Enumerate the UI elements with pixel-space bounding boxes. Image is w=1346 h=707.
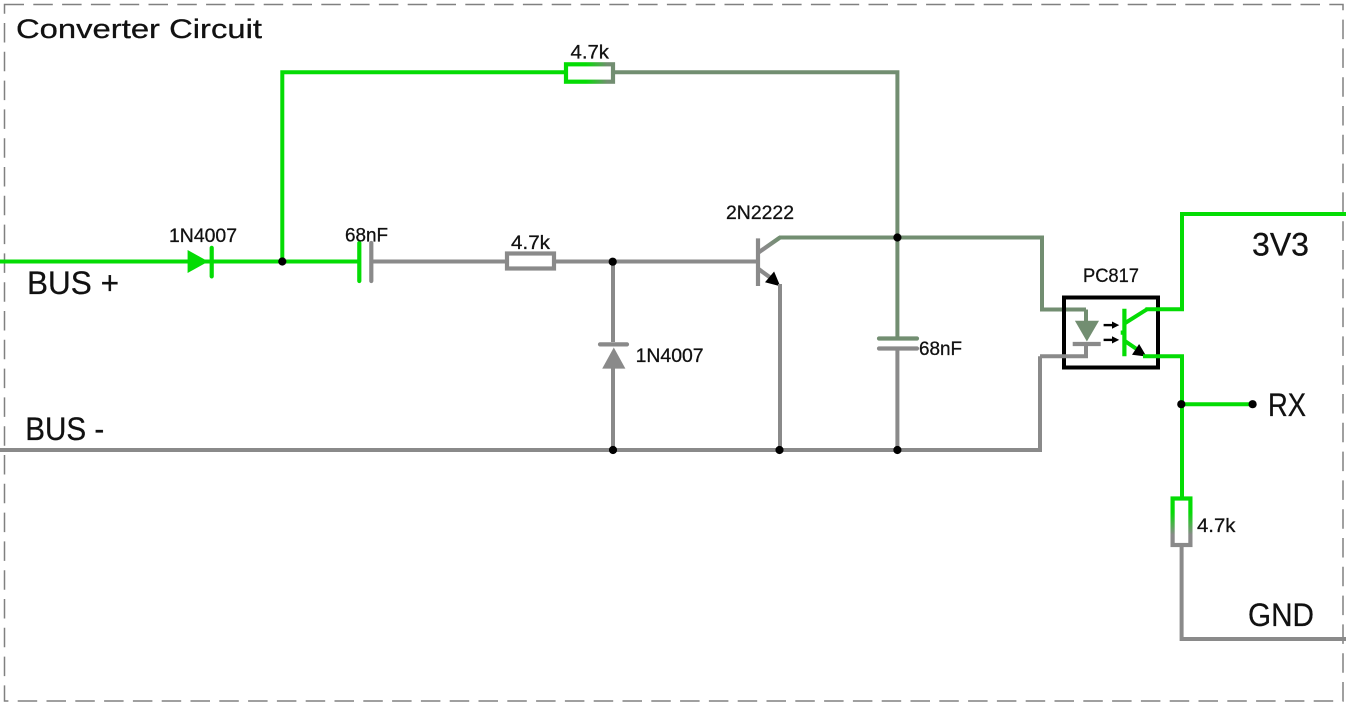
wire BUS- gray — [0, 448, 1042, 452]
svg-text:Converter Circuit: Converter Circuit — [16, 14, 263, 44]
svg-text:BUS +: BUS + — [27, 265, 119, 301]
svg-text:4.7k: 4.7k — [511, 233, 551, 254]
svg-text:3V3: 3V3 — [1252, 227, 1309, 263]
resistor R3 4.7k (vertical, gradient green->gray) — [1173, 499, 1191, 546]
wire sage collector rail — [779, 236, 1086, 337]
wire gray from C1 to R2 — [373, 260, 505, 264]
wire BUS+ horizontal green — [0, 260, 358, 264]
svg-text:1N4007: 1N4007 — [169, 226, 237, 247]
wire RX stub — [1181, 402, 1252, 406]
wire green collector to 3V3 — [1145, 214, 1346, 311]
wire green emitter to RX and R3 — [1143, 354, 1184, 496]
svg-text:2N2222: 2N2222 — [726, 203, 794, 224]
wire sage from R1 to riser — [613, 70, 897, 237]
node BUS-/C2 — [893, 446, 901, 454]
svg-text:4.7k: 4.7k — [571, 42, 610, 63]
wire gray base line — [556, 260, 756, 264]
svg-text:68nF: 68nF — [919, 339, 962, 360]
node BUS+/riser — [278, 257, 286, 265]
svg-text:GND: GND — [1248, 597, 1314, 633]
coupling arrows — [1104, 322, 1120, 344]
capacitor C1 68nF (left plate green, right plate gray) — [359, 243, 371, 281]
capacitor C2 68nF (top plate sage, bottom gray) — [879, 339, 917, 451]
node RX junction — [1177, 400, 1185, 408]
wire gray emitter down — [778, 284, 782, 450]
resistor R2 4.7k (gray) — [507, 254, 554, 269]
svg-text:RX: RX — [1268, 387, 1306, 423]
svg-text:PC817: PC817 — [1083, 266, 1139, 287]
node collector rail — [893, 233, 901, 241]
svg-text:68nF: 68nF — [345, 225, 388, 246]
junction dots — [278, 233, 1257, 454]
transistor Q1 2N2222 — [758, 238, 780, 287]
phototransistor inside PC817 (green) — [1121, 309, 1147, 357]
diode D2 1N4007 (gray, vertical) — [600, 262, 627, 451]
node base/D2 — [609, 258, 617, 266]
node RX terminal — [1249, 400, 1257, 408]
LED inside PC817 (sage anode, gray cathode) — [1040, 310, 1101, 451]
node BUS-/D2 — [609, 446, 617, 454]
svg-text:4.7k: 4.7k — [1197, 516, 1236, 537]
wire gray R3 to GND — [1180, 546, 1346, 639]
resistor R1 4.7k (top, gradient green->sage) — [566, 64, 613, 81]
node BUS-/emitter — [775, 446, 783, 454]
wire green vertical riser — [280, 72, 566, 263]
optocoupler U1 PC817 box — [1064, 298, 1158, 368]
diode D1 1N4007 (green, horizontal) — [188, 248, 212, 277]
svg-text:BUS -: BUS - — [25, 411, 104, 447]
svg-text:1N4007: 1N4007 — [636, 346, 704, 367]
